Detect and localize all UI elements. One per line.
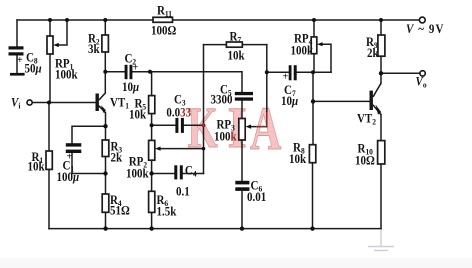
svg-text:10k: 10k <box>228 48 245 63</box>
svg-text:10μ: 10μ <box>281 93 298 108</box>
svg-text:Vi: Vi <box>11 95 21 111</box>
svg-text:1.5k: 1.5k <box>157 204 177 219</box>
svg-text:100k: 100k <box>291 43 314 58</box>
svg-text:10k: 10k <box>28 159 45 174</box>
svg-text:VT2: VT2 <box>357 111 376 127</box>
svg-text:100k: 100k <box>126 166 149 181</box>
svg-text:10k: 10k <box>129 107 146 122</box>
svg-text:+: + <box>283 72 289 83</box>
svg-text:C4: C4 <box>185 163 197 179</box>
svg-text:+: + <box>17 55 23 66</box>
svg-text:51Ω: 51Ω <box>110 203 130 218</box>
svg-text:Vo: Vo <box>416 74 427 90</box>
svg-text:+: + <box>67 152 73 163</box>
svg-text:VT1: VT1 <box>110 95 129 111</box>
svg-text:R11: R11 <box>157 3 172 19</box>
svg-text:2k: 2k <box>367 45 379 60</box>
svg-text:50μ: 50μ <box>25 61 42 76</box>
svg-text:100k: 100k <box>55 67 78 82</box>
svg-text:3300: 3300 <box>211 92 233 107</box>
svg-text:V ~ 9V: V ~ 9V <box>406 21 445 36</box>
svg-text:3k: 3k <box>88 41 100 56</box>
svg-text:0.033: 0.033 <box>166 105 191 120</box>
svg-text:A: A <box>250 96 281 163</box>
svg-text:100k: 100k <box>214 129 237 144</box>
svg-text:0.1: 0.1 <box>176 184 190 199</box>
svg-text:100μ: 100μ <box>57 169 80 184</box>
svg-text:10Ω: 10Ω <box>355 153 375 168</box>
svg-text:10k: 10k <box>289 151 306 166</box>
svg-text:2k: 2k <box>111 150 123 165</box>
svg-text:+: + <box>133 63 139 74</box>
svg-text:100Ω: 100Ω <box>151 23 177 38</box>
svg-text:R7: R7 <box>230 29 242 45</box>
svg-text:10μ: 10μ <box>122 79 139 94</box>
svg-text:0.01: 0.01 <box>247 189 266 204</box>
